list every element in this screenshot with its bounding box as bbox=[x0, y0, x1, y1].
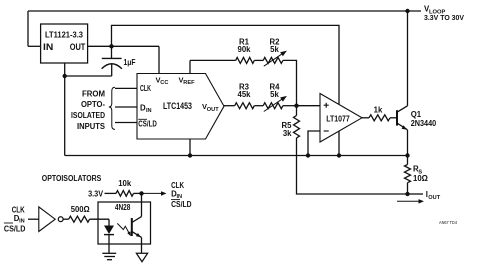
wire VREF row bbox=[254, 59, 263, 61]
phototransistor in opto bbox=[131, 218, 133, 236]
svg-text:OUT: OUT bbox=[428, 195, 440, 201]
node VCC junction dot bbox=[109, 44, 113, 48]
DAC U1 LTC1453 bbox=[137, 74, 224, 140]
wire CLK into DAC bbox=[115, 87, 137, 89]
wire minus input feedback bbox=[308, 131, 320, 156]
wire op-amp output bbox=[362, 117, 369, 119]
opto coupling arrow bbox=[117, 223, 130, 234]
arrow IOUT direction bbox=[397, 200, 421, 202]
trimpot R2 5k bbox=[263, 57, 283, 63]
node GND rail dot at DAC bbox=[188, 153, 192, 157]
wire VCC node up and across to LT1077 supply bbox=[112, 25, 340, 155]
wire R4 to summing node bbox=[283, 105, 297, 107]
node op-amp supply dot on ground rail bbox=[337, 153, 341, 157]
trimpot R4 5k bbox=[263, 103, 283, 109]
svg-text:FROM: FROM bbox=[82, 89, 105, 98]
wire LT1121 GND down to ground rail bbox=[64, 63, 66, 155]
svg-text:3k: 3k bbox=[283, 129, 292, 138]
wire 3.3V to 10k bbox=[105, 192, 117, 194]
wire VCC node corner down to LTC1453 VCC pin bbox=[158, 46, 160, 73]
svg-text:45k: 45k bbox=[237, 90, 251, 99]
svg-text:OUT: OUT bbox=[207, 107, 219, 113]
wire ground rail bbox=[65, 155, 408, 157]
wire opto emitter down bbox=[141, 237, 143, 253]
wire CSLD into DAC bbox=[115, 122, 137, 124]
pin LTC1453 GND bbox=[189, 139, 191, 156]
svg-text:2N3440: 2N3440 bbox=[411, 119, 437, 128]
resistor R1 90k bbox=[236, 57, 255, 63]
svg-text:CC: CC bbox=[160, 80, 168, 86]
resistor R3 45k bbox=[235, 103, 255, 109]
resistor R8 500ohm bbox=[69, 216, 90, 222]
svg-text:OPTOISOLATORS: OPTOISOLATORS bbox=[42, 174, 102, 183]
wire cap bottom to LT1121 GND bbox=[65, 75, 112, 77]
wire top VLOOP rail bbox=[28, 10, 421, 12]
inverter U4 bbox=[39, 207, 55, 232]
svg-text:10Ω: 10Ω bbox=[413, 174, 428, 183]
brace for opto-isolated inputs bbox=[109, 87, 115, 129]
wire input to inverter bbox=[28, 218, 39, 220]
svg-text:5k: 5k bbox=[270, 90, 279, 99]
node IOUT junction dot bbox=[405, 192, 409, 196]
node emitter dot on ground rail bbox=[405, 153, 409, 157]
wire left drop to LT1121 IN bbox=[27, 11, 29, 46]
regulator U2 LT1121-3.3 bbox=[41, 24, 88, 63]
svg-text:IN: IN bbox=[43, 42, 54, 52]
svg-text:CS/LD: CS/LD bbox=[171, 200, 192, 209]
wire VREF pin up bbox=[189, 60, 191, 73]
node summing junction dot bbox=[294, 104, 298, 108]
ground for LED bbox=[102, 252, 116, 254]
LED in opto bbox=[108, 219, 110, 225]
resistor RS 10ohm bbox=[407, 156, 409, 165]
resistor R5 3k bbox=[296, 106, 298, 116]
svg-text:1μF: 1μF bbox=[124, 57, 136, 67]
wire DIN into DAC bbox=[115, 106, 137, 108]
wire R3 to R4 bbox=[254, 105, 263, 107]
svg-text:INPUTS: INPUTS bbox=[77, 122, 105, 131]
wire LT1121 OUT to VCC node bbox=[88, 45, 159, 47]
transistor Q1 2N3440 bbox=[396, 110, 398, 125]
svg-text:CS/LD: CS/LD bbox=[138, 120, 157, 129]
resistor R6 1k bbox=[369, 115, 390, 121]
wire 500ohm to opto LED bbox=[90, 218, 109, 220]
chassis ground triangle bbox=[136, 253, 147, 261]
svg-text:ISOLATED: ISOLATED bbox=[71, 111, 105, 120]
op-amp U3 LT1077 bbox=[320, 94, 362, 143]
wire IOUT stub bbox=[408, 193, 424, 195]
node opto collector dot bbox=[139, 191, 143, 195]
wire VOUT to R3 bbox=[224, 105, 235, 107]
svg-text:LT1121-3.3: LT1121-3.3 bbox=[45, 30, 83, 40]
svg-text:OPTO-: OPTO- bbox=[81, 100, 105, 109]
svg-text:5k: 5k bbox=[270, 45, 279, 54]
resistor R7 10k bbox=[116, 191, 134, 197]
svg-text:IN: IN bbox=[146, 108, 152, 114]
svg-text:1k: 1k bbox=[374, 106, 383, 115]
arrow opto outputs bbox=[142, 192, 163, 194]
node feedback dot on ground rail bbox=[306, 153, 310, 157]
optocoupler U5 4N28 box bbox=[98, 202, 151, 244]
wire 1k to Q1 base bbox=[390, 117, 397, 119]
wire inverter to 500ohm bbox=[63, 218, 69, 220]
wire Q1 emitter down bbox=[407, 130, 409, 156]
wire Q1 collector up to VLOOP bbox=[407, 11, 409, 106]
svg-text:CS/LD: CS/LD bbox=[4, 224, 26, 233]
svg-text:LT1077: LT1077 bbox=[326, 115, 350, 124]
svg-text:10k: 10k bbox=[118, 179, 132, 188]
svg-text:90k: 90k bbox=[237, 45, 251, 54]
svg-text:CLK: CLK bbox=[140, 84, 151, 93]
wire 10k to collector node bbox=[134, 192, 142, 194]
wire summing node to op-amp plus input bbox=[297, 105, 321, 107]
svg-text:3.3V TO 30V: 3.3V TO 30V bbox=[424, 13, 465, 22]
svg-text:REF: REF bbox=[183, 80, 195, 86]
svg-text:OUT: OUT bbox=[70, 42, 86, 52]
svg-text:AN67 TD4: AN67 TD4 bbox=[439, 220, 458, 225]
capacitor C1 1uF bbox=[111, 46, 113, 58]
svg-text:LTC1453: LTC1453 bbox=[163, 101, 192, 111]
svg-text:500Ω: 500Ω bbox=[71, 205, 90, 214]
svg-text:3.3V: 3.3V bbox=[88, 190, 104, 199]
wire VREF to R1 bbox=[190, 59, 236, 61]
wire R5 bottom to IOUT sense bbox=[297, 138, 408, 194]
wire R2 to summing node bbox=[283, 60, 297, 105]
svg-text:4N28: 4N28 bbox=[115, 203, 131, 212]
node VLOOP junction dot bbox=[405, 9, 409, 13]
svg-text:Q1: Q1 bbox=[411, 110, 422, 119]
node LT1121 GND junction dot bbox=[62, 74, 66, 78]
wire opto collector bbox=[141, 193, 143, 216]
